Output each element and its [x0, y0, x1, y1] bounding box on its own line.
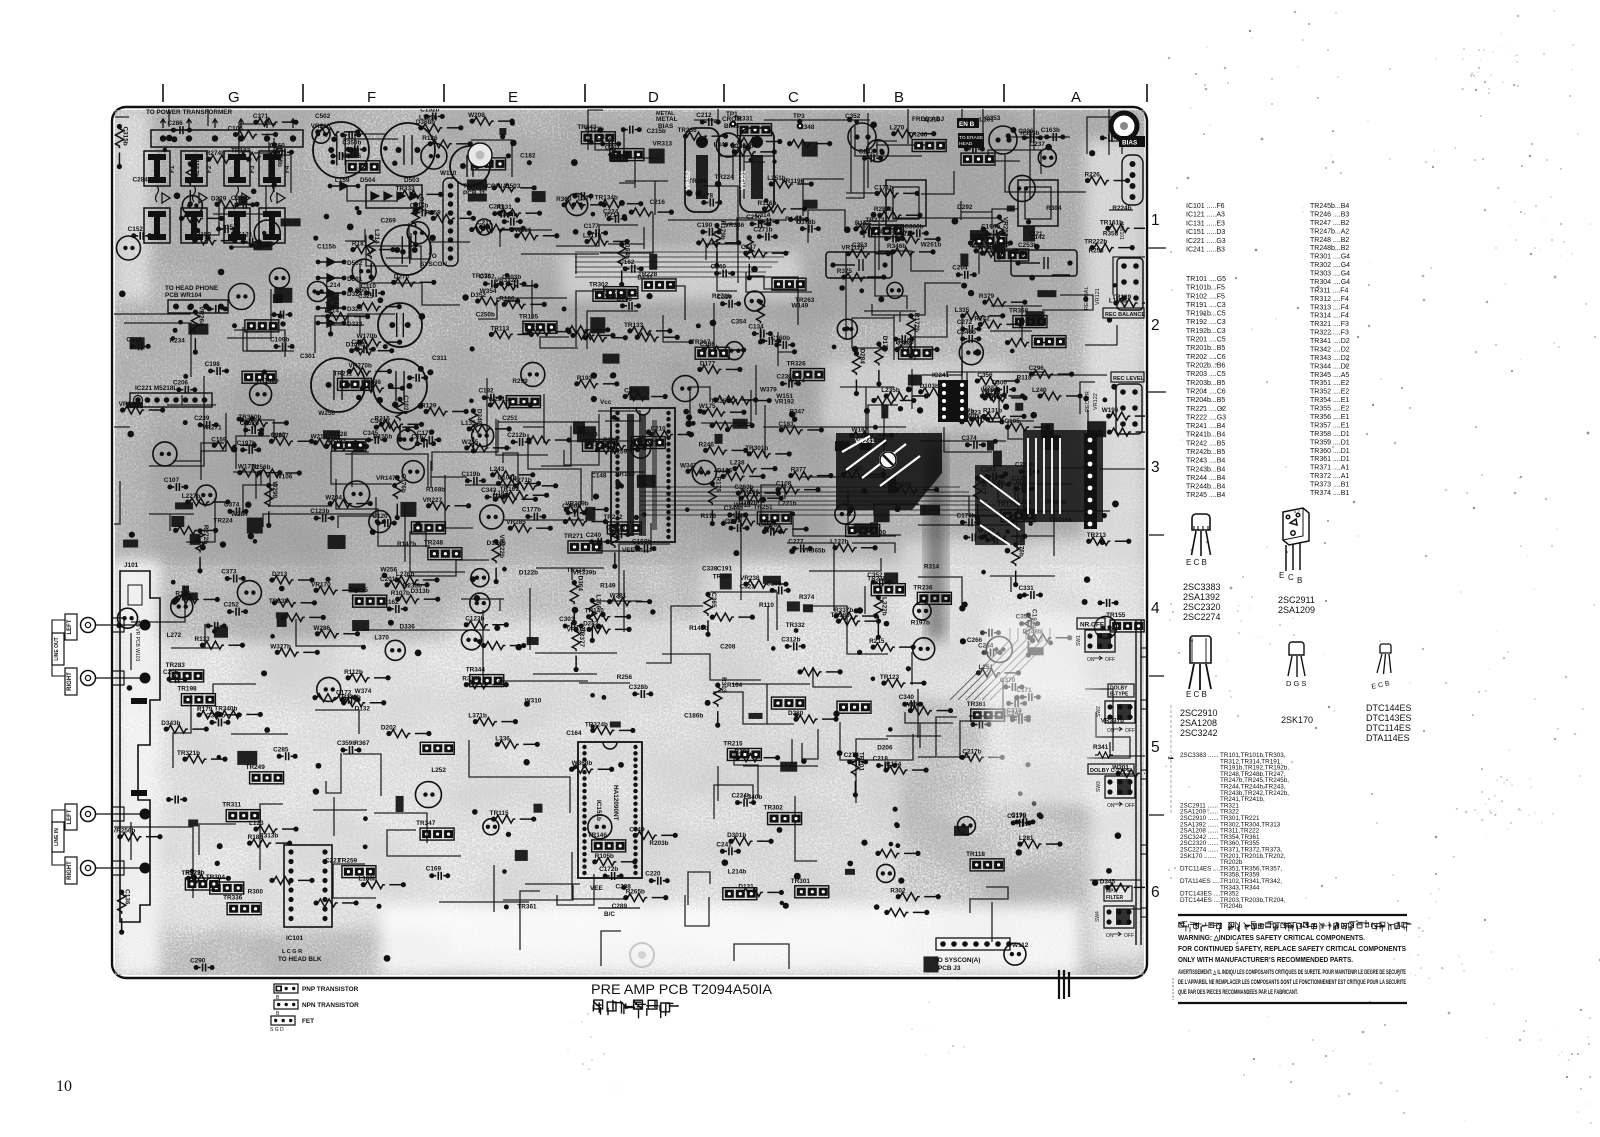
capacitor C162 — [383, 599, 408, 613]
wire — [878, 251, 944, 271]
pad blob — [281, 218, 301, 226]
capacitor C121 — [237, 232, 261, 246]
wire — [907, 92, 909, 144]
capacitor C160b — [771, 335, 796, 349]
via — [171, 580, 176, 585]
svg-text:ON: ON — [1087, 657, 1095, 663]
capacitor C182 — [415, 782, 441, 808]
connector J101 — [120, 562, 160, 922]
capacitor C340 — [899, 694, 924, 708]
wire — [525, 883, 580, 885]
svg-text:TR311 ....F4: TR311 ....F4 — [1310, 287, 1348, 294]
package TO-92 2SK170 — [1288, 642, 1305, 677]
wire bundle top — [575, 252, 790, 277]
capacitor C374 — [224, 501, 249, 515]
pad blob — [888, 478, 896, 493]
svg-text:TR245b...B4: TR245b...B4 — [1310, 203, 1349, 210]
via — [472, 809, 478, 815]
wire — [922, 315, 962, 375]
svg-text:TO SYSCON(A): TO SYSCON(A) — [463, 183, 509, 190]
capacitor C162b — [980, 629, 1001, 637]
pad blob — [1087, 421, 1106, 437]
svg-text:R272b: R272b — [712, 293, 731, 300]
capacitor C120 — [372, 513, 397, 527]
wire — [944, 427, 992, 452]
capacitor C180 — [521, 362, 545, 386]
svg-text:R246: R246 — [699, 441, 715, 448]
pad blob — [247, 518, 263, 534]
svg-text:D131: D131 — [738, 883, 754, 890]
pad blob — [585, 507, 595, 521]
resistor R289b — [874, 206, 923, 219]
svg-text:R331: R331 — [496, 204, 512, 211]
wire — [321, 316, 360, 334]
svg-text:C285: C285 — [273, 746, 289, 753]
via — [601, 695, 606, 700]
svg-text:IC121 .....A3: IC121 .....A3 — [1186, 212, 1225, 219]
capacitor C286 — [167, 120, 192, 134]
via — [857, 607, 863, 613]
pad blob — [527, 637, 539, 645]
pad blob — [1015, 403, 1023, 411]
via — [1006, 133, 1011, 138]
resistor VR264b — [272, 599, 317, 607]
capacitor C370 — [1000, 677, 1024, 691]
svg-text:TR247 ....B2: TR247 ....B2 — [1310, 220, 1349, 227]
capacitor C107 — [164, 477, 189, 491]
connector slot W101 — [1118, 155, 1143, 240]
svg-text:TR255: TR255 — [349, 587, 369, 594]
diode D504 — [328, 177, 376, 190]
svg-text:L252: L252 — [431, 767, 446, 774]
resistor VR227 — [423, 497, 472, 510]
capacitor C281 — [462, 630, 482, 650]
capacitor C237 — [982, 385, 1007, 399]
resistor VR146 — [360, 379, 405, 392]
capacitor C335 — [963, 533, 984, 541]
via — [960, 638, 966, 644]
via — [232, 323, 237, 328]
capacitor C187 — [472, 425, 494, 447]
svg-text:TR352 ....E2: TR352 ....E2 — [1310, 389, 1349, 396]
switch SW2 — [1096, 701, 1135, 734]
svg-text:TR244 ....B4: TR244 ....B4 — [1186, 475, 1225, 482]
wire — [263, 155, 291, 193]
label LEFT (line in) — [65, 804, 77, 830]
resistor C174 — [761, 520, 809, 533]
transistor TR272 — [772, 278, 806, 290]
transistor TR248 — [424, 540, 462, 560]
wire — [623, 570, 625, 632]
capacitor C254 — [340, 131, 361, 139]
via — [794, 713, 798, 717]
via — [1111, 384, 1117, 390]
svg-text:C328b: C328b — [629, 684, 648, 691]
svg-text:C169: C169 — [426, 866, 442, 873]
wire — [962, 356, 999, 418]
svg-text:RIGHT: RIGHT — [67, 861, 73, 880]
pad blob — [175, 502, 193, 509]
svg-text:HEAD: HEAD — [959, 141, 973, 147]
pad blob — [1043, 435, 1061, 450]
svg-text:TR321b: TR321b — [177, 750, 200, 757]
pad blob — [123, 539, 138, 547]
transistor TR118 — [966, 851, 1004, 871]
via — [612, 415, 617, 420]
svg-text:TR192b...C3: TR192b...C3 — [1186, 328, 1226, 335]
via — [864, 433, 869, 438]
svg-text:OFF: OFF — [1125, 803, 1135, 809]
svg-text:TR266: TR266 — [895, 339, 915, 346]
via — [794, 628, 799, 633]
via — [1010, 349, 1015, 354]
via — [589, 140, 594, 145]
label REC BALANCE — [1103, 308, 1145, 318]
svg-text:TR303 ....G4: TR303 ....G4 — [1310, 271, 1350, 278]
via — [383, 344, 388, 349]
svg-text:L214: L214 — [326, 282, 341, 289]
wire — [813, 667, 852, 687]
resistor W369b — [710, 613, 755, 621]
resistor R179b — [713, 221, 726, 269]
via — [163, 148, 168, 153]
fuse F2 — [181, 151, 213, 186]
resistor L256 — [588, 594, 601, 643]
svg-text:R133: R133 — [194, 636, 210, 643]
via — [502, 869, 507, 874]
via — [1010, 127, 1016, 133]
resistor R341 label — [1093, 744, 1113, 758]
wire — [523, 394, 544, 443]
IC221 M5218L — [130, 385, 212, 407]
transistor TR231 — [242, 371, 276, 383]
svg-text:L370: L370 — [374, 635, 389, 642]
transistor TR345 — [991, 241, 1029, 261]
svg-text:ONLY WITH MANUFACTURER’S RE: ONLY WITH MANUFACTURER’S RECOMMENDED PAR… — [1178, 955, 1353, 964]
transistor TR302 — [589, 281, 627, 301]
wire — [918, 524, 1014, 526]
svg-text:R152: R152 — [855, 220, 871, 227]
transistor TR361 — [967, 701, 1005, 721]
pad blob — [802, 142, 818, 157]
resistor R377 — [788, 467, 833, 480]
capacitor C222 — [867, 140, 889, 162]
resistor C201b — [380, 576, 430, 589]
via — [593, 493, 599, 499]
test point TP1 — [726, 111, 738, 127]
capacitor C290 — [631, 438, 651, 458]
wire — [345, 454, 428, 487]
resistor D367b — [713, 396, 758, 404]
svg-text:C354: C354 — [731, 319, 747, 326]
via — [833, 711, 839, 717]
capacitor C293 — [153, 442, 177, 466]
via — [1102, 398, 1107, 403]
svg-text:TR242 ....B5: TR242 ....B5 — [1186, 440, 1225, 447]
pad blob — [860, 439, 872, 450]
svg-text:C374: C374 — [961, 435, 977, 442]
via — [789, 548, 795, 554]
svg-text:TR202b...B6: TR202b...B6 — [1186, 363, 1225, 370]
wire — [355, 134, 385, 157]
via — [418, 403, 424, 409]
transistor TR275 — [961, 153, 995, 165]
via — [349, 275, 354, 280]
wire — [761, 485, 785, 516]
resistor C247 — [741, 244, 789, 257]
via — [183, 374, 188, 379]
via — [205, 235, 211, 241]
resistor D345 — [1100, 878, 1151, 891]
resistor VR170 — [311, 581, 359, 594]
fold marks — [1147, 248, 1166, 815]
svg-text:C120: C120 — [372, 513, 388, 520]
via — [212, 629, 217, 634]
via — [331, 137, 336, 142]
svg-text:L C G R: L C G R — [282, 949, 302, 955]
via — [504, 904, 509, 909]
capacitor C221 — [725, 342, 743, 360]
pad blob — [353, 445, 364, 452]
wire — [1087, 712, 1130, 758]
via — [701, 625, 706, 630]
svg-text:C198: C198 — [205, 361, 221, 368]
svg-text:D: D — [648, 89, 659, 106]
wire — [254, 142, 269, 179]
svg-text:C159: C159 — [211, 436, 227, 443]
resistor R222b — [756, 299, 764, 344]
resistor L228 — [173, 526, 218, 534]
svg-text:TR357 ....E1: TR357 ....E1 — [1310, 422, 1349, 429]
capacitor C190 — [1009, 175, 1035, 201]
svg-text:SW3: SW3 — [1096, 781, 1102, 792]
resistor W292 — [969, 242, 1019, 255]
wire — [404, 504, 406, 562]
transistor TR105 — [519, 313, 557, 333]
svg-text:D292: D292 — [957, 204, 973, 211]
capacitor C309 — [692, 460, 716, 484]
wire — [669, 286, 685, 320]
svg-text:C148: C148 — [591, 473, 607, 480]
wire — [193, 186, 196, 202]
fuse F1 — [144, 151, 176, 186]
wire — [535, 652, 617, 654]
wire — [498, 421, 599, 423]
resistor C263b — [734, 484, 781, 497]
svg-text:C268: C268 — [766, 580, 782, 587]
trimmer C352 — [845, 113, 876, 151]
wire — [469, 740, 570, 813]
svg-text:METAL: METAL — [656, 116, 678, 123]
resistor R292 — [735, 749, 781, 762]
via — [1003, 404, 1009, 410]
pad blob — [130, 337, 145, 349]
svg-text:2SA1392: 2SA1392 — [1183, 592, 1220, 602]
capacitor C275 — [385, 640, 405, 660]
capacitor C163b — [1041, 127, 1066, 141]
capacitor C310 — [361, 283, 386, 297]
wire — [498, 680, 588, 682]
wire — [471, 140, 512, 177]
power header TO POWER TRANSFORMER — [146, 109, 303, 147]
via — [1034, 244, 1040, 250]
svg-text:TR271: TR271 — [564, 533, 584, 540]
svg-text:A: A — [1071, 89, 1081, 106]
diode D502 — [316, 258, 363, 267]
svg-text:W261b: W261b — [921, 242, 942, 249]
wire — [740, 514, 742, 600]
svg-text:REC BAL: REC BAL — [1084, 286, 1090, 310]
via — [1037, 812, 1043, 818]
resistor TR161b — [1100, 219, 1151, 232]
fuse F3 — [224, 151, 256, 186]
resistor R365b — [727, 397, 772, 405]
wire — [778, 332, 794, 366]
svg-text:TO HEAD BLK: TO HEAD BLK — [278, 956, 322, 963]
resistor C296 — [1029, 365, 1075, 378]
resistor W266 — [514, 227, 559, 240]
svg-text:BIAS: BIAS — [1122, 140, 1138, 147]
via — [571, 159, 578, 166]
wire — [764, 119, 870, 121]
via — [217, 843, 223, 849]
capacitor C240 — [407, 222, 429, 244]
module C253 — [826, 242, 892, 278]
svg-text:C269: C269 — [381, 218, 397, 225]
svg-text:SW4: SW4 — [1095, 911, 1101, 922]
via — [619, 200, 625, 206]
svg-text:F2: F2 — [206, 165, 213, 173]
pad blob — [954, 826, 969, 836]
svg-text:D323: D323 — [347, 306, 363, 313]
wire — [465, 484, 516, 486]
via — [313, 235, 318, 240]
svg-text:VR238: VR238 — [740, 575, 760, 582]
rule bottom — [1178, 1002, 1407, 1004]
pad blob — [533, 804, 542, 813]
svg-text:L238: L238 — [730, 460, 745, 467]
svg-text:C286: C286 — [167, 120, 183, 127]
wire — [579, 682, 630, 684]
svg-text:C191: C191 — [717, 566, 733, 573]
resistor D270 — [391, 273, 436, 286]
capacitor C169 — [426, 866, 451, 880]
svg-text:W231b: W231b — [488, 396, 509, 403]
capacitor C350b — [342, 139, 367, 153]
pad blob — [1041, 423, 1054, 439]
resistor L335 — [955, 307, 1006, 320]
rule top — [1178, 914, 1407, 916]
wire — [445, 475, 473, 528]
svg-text:TR321 ....F3: TR321 ....F3 — [1310, 321, 1349, 328]
wire — [713, 692, 794, 724]
capacitor C241 — [489, 204, 514, 218]
capacitor C121b — [893, 335, 914, 343]
svg-text:VR285: VR285 — [506, 519, 526, 526]
svg-text:HA12090NT: HA12090NT — [612, 785, 619, 821]
via — [215, 711, 221, 717]
svg-text:C284: C284 — [133, 176, 149, 183]
via — [262, 369, 267, 374]
svg-text:2SA1209: 2SA1209 — [1278, 605, 1315, 615]
resistor R379 — [979, 293, 1028, 306]
capacitor C327 — [237, 581, 261, 605]
svg-text:C229: C229 — [231, 195, 247, 202]
capacitor C229 — [231, 195, 256, 209]
svg-text:C224: C224 — [603, 209, 619, 216]
pad blob — [920, 505, 940, 515]
svg-text:REC LEVEL: REC LEVEL — [1113, 376, 1145, 382]
wire — [646, 606, 703, 663]
capacitor C266 — [312, 125, 330, 143]
svg-text:F4: F4 — [284, 165, 291, 173]
capacitor C319 — [126, 336, 151, 350]
capacitor C241 — [716, 841, 741, 855]
capacitor C254 — [978, 643, 1003, 657]
svg-text:OFF: OFF — [1125, 728, 1135, 734]
svg-text:TR123: TR123 — [880, 674, 900, 681]
capacitor C267 — [725, 518, 750, 532]
svg-text:R159: R159 — [425, 209, 441, 216]
pad blob — [649, 254, 657, 270]
wire — [878, 222, 880, 270]
wire — [540, 337, 578, 348]
svg-text:LEFT: LEFT — [67, 809, 73, 824]
svg-text:C247: C247 — [741, 244, 757, 251]
svg-text:IC221 .....G3: IC221 .....G3 — [1186, 238, 1226, 245]
dark cluster B3 — [975, 465, 1025, 545]
resistor TR167 — [500, 486, 550, 499]
svg-text:TR367: TR367 — [691, 339, 711, 346]
wire — [405, 560, 489, 576]
resistor D368b — [416, 119, 464, 132]
resistor C216 — [412, 197, 425, 248]
via — [174, 192, 181, 199]
capacitor C263 — [970, 720, 991, 728]
via — [591, 396, 597, 402]
capacitor C315 — [182, 196, 202, 216]
resistor W327b — [270, 643, 320, 656]
wire — [732, 684, 810, 724]
svg-text:TR202 ....C6: TR202 ....C6 — [1186, 354, 1226, 361]
resistor W170b — [357, 333, 403, 346]
resistor R105b — [592, 853, 637, 866]
capacitor C242 — [913, 602, 931, 620]
wire — [531, 280, 533, 319]
resistor L135 — [461, 420, 512, 433]
transistor TR226 — [342, 153, 380, 173]
capacitor C274 — [844, 752, 869, 766]
capacitor C314b — [498, 212, 523, 226]
wire — [556, 225, 638, 246]
capacitor C178 — [617, 296, 642, 310]
transistor TR198 — [177, 686, 215, 706]
capacitor C177 — [417, 430, 442, 444]
via — [861, 488, 867, 494]
svg-text:FET: FET — [302, 1018, 314, 1025]
svg-text:R149: R149 — [600, 582, 616, 589]
svg-text:DE L’APPAREIL NE REMPLACER LES: DE L’APPAREIL NE REMPLACER LES COMPOSANT… — [1178, 980, 1406, 986]
switch SW3 — [1096, 776, 1135, 809]
wire — [970, 887, 1008, 913]
resistor R139 — [421, 402, 469, 415]
svg-text:TR311: TR311 — [222, 802, 241, 809]
pad blob — [273, 294, 283, 303]
via — [248, 533, 254, 539]
resistor L240 — [1032, 387, 1083, 400]
fuse holder lower F4 — [259, 208, 285, 243]
svg-text:C290: C290 — [190, 957, 206, 964]
